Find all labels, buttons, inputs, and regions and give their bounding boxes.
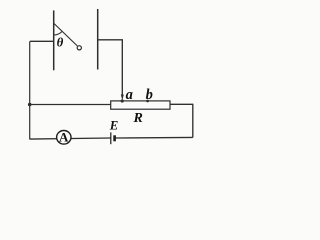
wire resistor right to right rail <box>170 103 193 105</box>
wire right plate to slider <box>98 40 123 97</box>
battery E short thick plate <box>113 135 116 141</box>
svg-text:E: E <box>109 119 119 133</box>
svg-text:b: b <box>146 87 153 103</box>
capacitor right plate <box>97 9 99 70</box>
junction dot <box>28 103 32 107</box>
battery E long thin plate <box>110 132 112 144</box>
angle arc <box>54 32 62 35</box>
wire junction to resistor <box>30 104 111 106</box>
resistor R box <box>111 101 170 109</box>
svg-text:θ: θ <box>57 36 64 50</box>
svg-text:A: A <box>59 130 69 145</box>
ammeter A <box>57 131 71 145</box>
wire top-left horizontal <box>30 40 54 42</box>
right rail wire <box>192 104 194 138</box>
svg-text:R: R <box>133 111 143 126</box>
pendulum ball <box>77 46 81 50</box>
bottom wire left segment <box>30 138 111 139</box>
contact a dot <box>121 99 124 102</box>
bottom wire right segment <box>115 136 193 139</box>
svg-text:a: a <box>126 87 133 103</box>
contact b dot <box>146 100 149 103</box>
pendulum thread <box>54 24 77 46</box>
arrowhead onto contact a <box>121 95 124 101</box>
capacitor left plate <box>53 10 55 70</box>
left rail wire <box>29 41 31 139</box>
